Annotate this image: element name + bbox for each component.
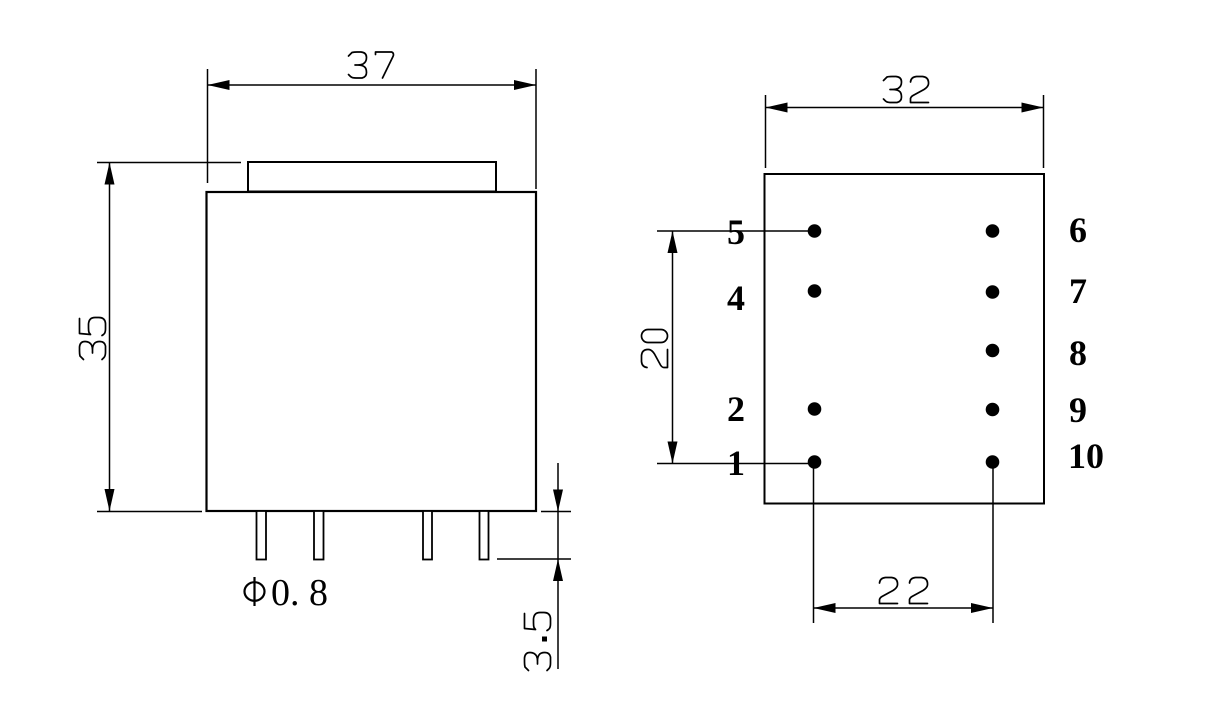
svg-text:8: 8 (1069, 333, 1087, 373)
svg-text:5: 5 (727, 212, 745, 252)
svg-text:1: 1 (727, 443, 745, 483)
svg-text:10: 10 (1068, 436, 1104, 476)
svg-text:6: 6 (1069, 210, 1087, 250)
svg-text:0. 8: 0. 8 (271, 572, 328, 614)
svg-text:7: 7 (1069, 271, 1087, 311)
svg-text:4: 4 (727, 278, 745, 318)
svg-text:9: 9 (1069, 390, 1087, 430)
svg-text:2: 2 (727, 389, 745, 429)
